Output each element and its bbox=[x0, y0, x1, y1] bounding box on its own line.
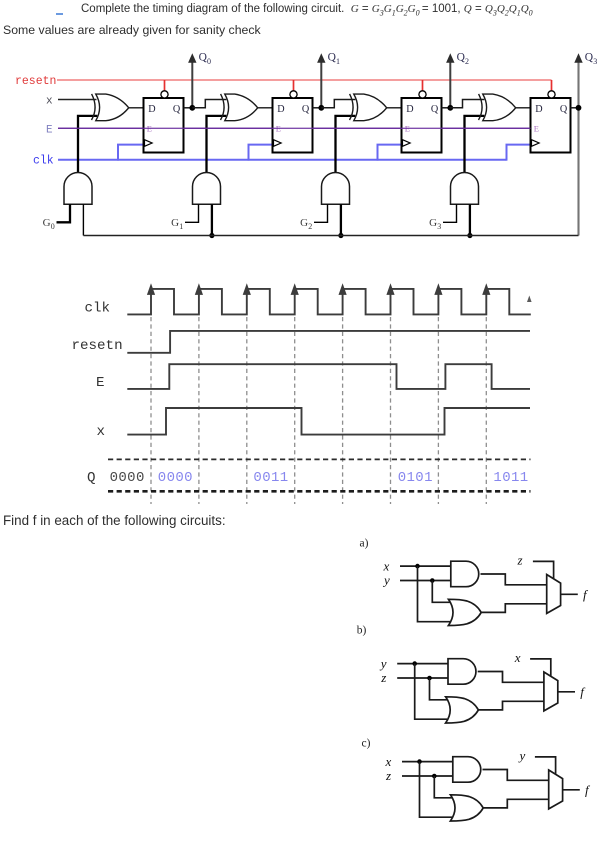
gridline clk edge 6 bbox=[390, 317, 392, 504]
wire AND3 right input from feedback bus bbox=[469, 204, 471, 235]
svg-text:f: f bbox=[580, 684, 586, 699]
xor-gate X2 body bbox=[354, 94, 387, 121]
wire AND3 output to XOR3 lower input bbox=[465, 116, 485, 173]
wire AND output to mux (circuit a) bbox=[481, 574, 548, 585]
wire y (circuit b) bbox=[397, 663, 449, 665]
gridline clk edge 2 bbox=[198, 317, 200, 504]
wire resetn drop to FF2 clear bubble bbox=[422, 80, 424, 91]
wire y branch to OR (circuit a) bbox=[432, 581, 450, 603]
wire resetn drop to FF1 clear bubble bbox=[293, 80, 295, 91]
wire AND2 right input from feedback bus bbox=[340, 204, 342, 235]
wire y (circuit a) bbox=[400, 580, 452, 582]
waveform resetn bbox=[127, 331, 530, 353]
wire Q1 arrow riser bbox=[320, 62, 322, 109]
wire z branch to OR (circuit b) bbox=[430, 678, 448, 700]
svg-text:b): b) bbox=[357, 625, 367, 637]
wire AND0 right input from feedback bus bbox=[82, 204, 84, 235]
wire z (circuit c) bbox=[402, 775, 454, 777]
wire mux output f (circuit b) bbox=[558, 691, 575, 693]
junction dot x (circuit a) bbox=[415, 564, 420, 569]
svg-text:x: x bbox=[514, 650, 521, 665]
wire Q1 to XOR2 upper input bbox=[321, 100, 355, 108]
gridline clk edge 3 bbox=[246, 317, 248, 504]
junction dot z (circuit c) bbox=[432, 774, 437, 779]
arrowhead Q3 bbox=[574, 53, 582, 63]
wire clk branch to FF2 bbox=[378, 145, 403, 161]
xor-gate X1 body bbox=[225, 94, 258, 121]
wire Q0 output bbox=[184, 107, 193, 109]
xor-gate X0 input arc bbox=[92, 94, 96, 120]
junction dot on feedback bus at AND1 bbox=[209, 233, 214, 238]
wire resetn bus (red) bbox=[57, 79, 552, 81]
arrowhead Q0 bbox=[188, 53, 196, 63]
arrowhead clk rising edge 8 bbox=[482, 283, 490, 295]
wire resetn drop to FF0 clear bubble bbox=[164, 80, 166, 91]
svg-text:a): a) bbox=[360, 537, 369, 549]
wire Q0 to XOR1 upper input bbox=[192, 100, 226, 108]
wire select x to mux (circuit b) bbox=[530, 659, 551, 676]
gridline clk edge 5 bbox=[342, 317, 344, 504]
xor-gate X2 input arc bbox=[350, 94, 354, 120]
wire Q3 feedback vertical bbox=[577, 62, 579, 236]
and-gate A0 body bbox=[64, 173, 92, 205]
wire resetn drop to FF3 clear bubble bbox=[551, 80, 553, 91]
and-gate A2 body bbox=[322, 173, 350, 205]
wire AND output to mux (circuit b) bbox=[478, 672, 545, 683]
or-gate (circuit c) bbox=[450, 795, 483, 821]
and-gate A1 body bbox=[193, 173, 221, 205]
flip-flop FF3 clear bubble bbox=[548, 91, 555, 98]
wire G0 to AND0 left input bbox=[57, 204, 71, 222]
arrowhead clk rising edge 6 bbox=[386, 283, 394, 295]
arrowhead clk rising edge 5 bbox=[339, 283, 347, 295]
wire x branch to OR (circuit c) bbox=[420, 762, 453, 818]
wire AND output to mux (circuit c) bbox=[483, 770, 550, 781]
wire mux output f (circuit c) bbox=[563, 789, 580, 791]
mux trapezoid (circuit a) bbox=[547, 575, 561, 614]
junction dot Q2 bbox=[447, 105, 453, 111]
and-gate A3 body bbox=[451, 173, 479, 205]
flip-flop FF2 body bbox=[402, 98, 442, 153]
junction dot Q3 bbox=[576, 105, 582, 111]
wire AND2 output to XOR2 lower input bbox=[336, 116, 356, 173]
xor-gate X3 input arc bbox=[479, 94, 483, 120]
wire z (circuit b) bbox=[397, 677, 449, 679]
flip-flop FF0 body bbox=[144, 98, 184, 153]
wire G1 to AND1 left input bbox=[185, 204, 199, 222]
flip-flop FF1 clear bubble bbox=[290, 91, 297, 98]
flip-flop FF1 clock triangle bbox=[274, 140, 282, 147]
wire E bus (purple) bbox=[58, 127, 531, 129]
arrowhead clk rising edge 4 bbox=[291, 283, 299, 295]
xor-gate X1 input arc bbox=[221, 94, 225, 120]
or-gate (circuit b) bbox=[446, 697, 479, 723]
wire mux output f (circuit a) bbox=[561, 593, 578, 595]
wire AND1 right input from feedback bus bbox=[211, 204, 213, 235]
wire G3 to AND3 left input bbox=[443, 204, 457, 222]
flip-flop FF0 clock triangle bbox=[145, 140, 153, 147]
flip-flop FF2 clear bubble bbox=[419, 91, 426, 98]
waveform x bbox=[127, 408, 530, 435]
arrowhead clk rising edge 2 bbox=[195, 283, 203, 295]
Q band top dashed line bbox=[108, 458, 531, 460]
flip-flop FF1 body bbox=[273, 98, 313, 153]
mux trapezoid (circuit b) bbox=[544, 672, 558, 711]
xor-gate X0 body bbox=[96, 94, 129, 121]
wire AND1 output to XOR1 lower input bbox=[207, 116, 227, 173]
wire XOR0 output to D of FF0 bbox=[129, 107, 144, 109]
junction dot z (circuit b) bbox=[427, 676, 432, 681]
wire OR output to mux (circuit c) bbox=[483, 799, 549, 808]
wire Q2 output bbox=[442, 107, 451, 109]
wire x (circuit c) bbox=[402, 761, 454, 763]
flip-flop FF3 body bbox=[531, 98, 571, 153]
arrowhead clk partial 9th edge bbox=[527, 296, 532, 303]
wire x input bbox=[58, 99, 97, 101]
junction dot y (circuit a) bbox=[430, 578, 435, 583]
title text bbox=[81, 3, 533, 17]
wire XOR3 output to D of FF3 bbox=[516, 107, 531, 109]
gridline clk edge 8 bbox=[485, 317, 487, 504]
junction dot y (circuit b) bbox=[412, 661, 417, 666]
wire z branch to OR (circuit c) bbox=[434, 776, 452, 798]
Q band bottom dashed line bbox=[108, 490, 531, 493]
arrowhead Q2 bbox=[446, 53, 454, 63]
junction dot Q0 bbox=[189, 105, 195, 111]
gridline clk edge 4 bbox=[294, 317, 296, 504]
svg-text:y: y bbox=[518, 748, 526, 763]
arrowhead clk rising edge 3 bbox=[243, 283, 251, 295]
svg-text:x: x bbox=[385, 754, 392, 769]
wire AND0 output to XOR0 lower input bbox=[78, 116, 97, 173]
gridline clk edge 1 bbox=[150, 317, 152, 504]
wire clk branch to FF0 bbox=[118, 145, 145, 161]
svg-text:z: z bbox=[517, 553, 523, 568]
svg-text:c): c) bbox=[362, 738, 371, 750]
flip-flop FF0 clear bubble bbox=[161, 91, 168, 98]
arrowhead clk rising edge 1 bbox=[147, 283, 155, 295]
gridline clk edge 7 bbox=[437, 317, 439, 504]
find-f text bbox=[3, 513, 226, 528]
xor-gate X3 body bbox=[483, 94, 516, 121]
wire OR output to mux (circuit b) bbox=[478, 701, 544, 710]
junction dot on feedback bus at AND2 bbox=[338, 233, 343, 238]
waveform clk bbox=[127, 289, 531, 315]
junction dot on feedback bus at AND3 bbox=[467, 233, 472, 238]
wire y branch to OR (circuit b) bbox=[415, 664, 448, 720]
wire Q2 arrow riser bbox=[449, 62, 451, 109]
svg-text:y: y bbox=[379, 656, 387, 671]
wire Q1 output bbox=[313, 107, 322, 109]
junction dot x (circuit c) bbox=[417, 759, 422, 764]
svg-text:f: f bbox=[585, 782, 591, 797]
wire x (circuit a) bbox=[400, 565, 452, 567]
and-gate (circuit b) bbox=[448, 659, 476, 685]
flip-flop FF3 clock triangle bbox=[532, 140, 540, 147]
arrowhead Q1 bbox=[317, 53, 325, 63]
wire clk bus (blue) bbox=[58, 159, 507, 161]
wire XOR2 output to D of FF2 bbox=[387, 107, 402, 109]
waveform E bbox=[127, 364, 530, 389]
subtitle text bbox=[3, 23, 261, 37]
wire clk branch to FF3 bbox=[507, 145, 532, 161]
wire clk branch to FF1 bbox=[249, 145, 274, 161]
and-gate (circuit a) bbox=[451, 561, 479, 587]
svg-text:f: f bbox=[583, 587, 589, 602]
svg-text:y: y bbox=[382, 573, 390, 588]
wire Q3 output bbox=[571, 107, 579, 109]
wire select y to mux (circuit c) bbox=[535, 757, 556, 774]
flip-flop FF2 clock triangle bbox=[403, 140, 411, 147]
stray mark bbox=[56, 13, 63, 15]
svg-text:z: z bbox=[385, 768, 391, 783]
mux trapezoid (circuit c) bbox=[549, 770, 563, 809]
wire select z to mux (circuit a) bbox=[533, 561, 554, 578]
junction dot Q1 bbox=[318, 105, 324, 111]
svg-text:x: x bbox=[383, 559, 390, 574]
arrowhead clk rising edge 7 bbox=[434, 283, 442, 295]
wire OR output to mux (circuit a) bbox=[481, 604, 547, 613]
wire feedback bus (bottom) bbox=[83, 235, 578, 237]
or-gate (circuit a) bbox=[448, 599, 481, 625]
wire Q0 arrow riser bbox=[191, 62, 193, 109]
svg-text:z: z bbox=[380, 670, 386, 685]
wire XOR1 output to D of FF1 bbox=[258, 107, 273, 109]
wire x branch to OR (circuit a) bbox=[418, 566, 451, 622]
wire E bus overlay bbox=[58, 127, 531, 129]
wire G2 to AND2 left input bbox=[314, 204, 328, 222]
wire Q2 to XOR3 upper input bbox=[450, 100, 485, 108]
and-gate (circuit c) bbox=[453, 757, 481, 783]
